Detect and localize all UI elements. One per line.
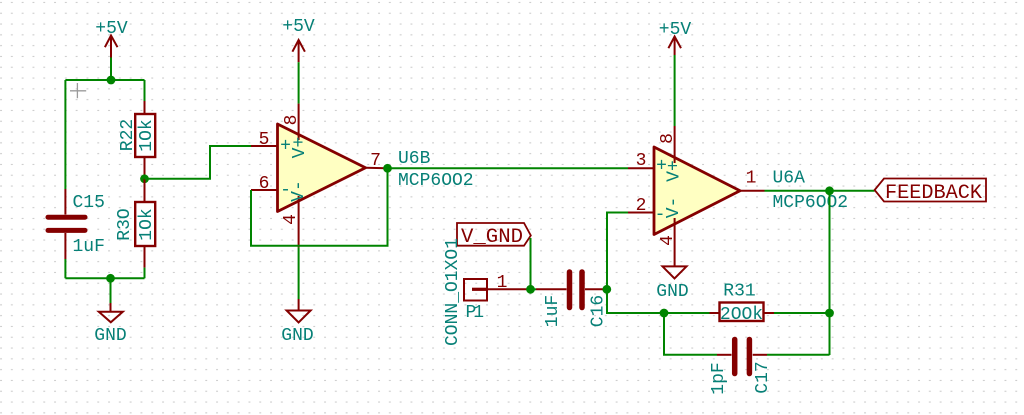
- junction P1 node: [526, 285, 535, 294]
- wire left branch down to C15: [64, 80, 66, 189]
- svg-text:1uF: 1uF: [543, 295, 563, 327]
- svg-text:1uF: 1uF: [73, 237, 105, 257]
- wire output branch vertical: [829, 191, 831, 355]
- pin 4: [298, 196, 300, 247]
- wire top rail: [65, 79, 144, 81]
- wire V_GND to node: [530, 238, 532, 289]
- resistor R30: [135, 179, 155, 268]
- wire U6A pin 2 branch: [607, 213, 664, 314]
- pin 5: [251, 145, 278, 147]
- svg-text:4: 4: [281, 214, 301, 225]
- svg-text:C16: C16: [589, 295, 609, 327]
- svg-text:1Ok: 1Ok: [137, 119, 157, 151]
- svg-text:5: 5: [259, 130, 270, 150]
- svg-text:U6B: U6B: [398, 149, 431, 169]
- ground GND right: [656, 266, 688, 302]
- svg-text:U6A: U6A: [773, 169, 806, 189]
- wire U6A output to FEEDBACK: [765, 190, 875, 192]
- wire +5V to U6B pin 8: [298, 62, 300, 103]
- svg-text:+5V: +5V: [282, 17, 315, 37]
- svg-text:V+: V+: [665, 160, 685, 182]
- wire divider tap to op-amp: [145, 146, 252, 179]
- svg-text:MCP6OO2: MCP6OO2: [398, 171, 474, 191]
- connector P1: [464, 273, 531, 301]
- wire C15 bottom: [64, 259, 66, 278]
- wire U6B pin4 to ground: [298, 247, 300, 299]
- global label V_GND: [457, 223, 531, 249]
- global label FEEDBACK: [875, 179, 986, 205]
- svg-text:6: 6: [259, 174, 270, 194]
- svg-text:R3O: R3O: [115, 208, 135, 240]
- wire +5V to U6A pin 8: [674, 55, 676, 126]
- pin 8: [674, 126, 676, 163]
- capacitor C15: [48, 189, 85, 259]
- resistor R22: [135, 101, 155, 179]
- svg-text:8: 8: [282, 115, 302, 126]
- op-amp U6B: [251, 104, 388, 248]
- svg-text:GND: GND: [94, 326, 126, 346]
- svg-text:C17: C17: [753, 361, 773, 393]
- pin 8: [298, 104, 300, 140]
- junction output branch: [825, 186, 834, 195]
- pin 3: [628, 167, 654, 169]
- power +5V PWR02: [282, 17, 315, 62]
- svg-text:P1: P1: [466, 303, 485, 323]
- svg-text:V-: V-: [664, 197, 684, 219]
- ground GND middle: [281, 299, 313, 346]
- svg-text:FEEDBACK: FEEDBACK: [885, 182, 982, 205]
- svg-text:3: 3: [636, 151, 647, 171]
- power +5V PWR03: [659, 20, 692, 55]
- junction top rail: [107, 76, 116, 85]
- ground GND left: [94, 278, 126, 346]
- pin 4: [674, 218, 676, 266]
- resistor R31: [710, 303, 775, 322]
- pin 6: [251, 189, 278, 191]
- svg-text:8: 8: [658, 133, 678, 144]
- svg-text:2: 2: [636, 196, 647, 216]
- wire R22 top stub: [144, 80, 146, 101]
- origin crosshair marker: [70, 83, 86, 98]
- svg-text:V-: V-: [289, 180, 309, 202]
- svg-text:7: 7: [370, 151, 381, 171]
- svg-text:1: 1: [497, 273, 508, 293]
- junction bottom rail: [106, 274, 115, 283]
- junction R31 right node: [825, 309, 834, 318]
- svg-text:CONN_O1XO1: CONN_O1XO1: [443, 238, 463, 346]
- junction C16 right node: [602, 285, 611, 294]
- svg-text:GND: GND: [656, 282, 688, 302]
- svg-text:1: 1: [746, 169, 757, 189]
- junction U6B output: [383, 164, 392, 173]
- wire C17 branch left: [664, 313, 717, 355]
- wire U6B output to U6A pin 3: [388, 167, 629, 169]
- svg-text:1pF: 1pF: [709, 362, 729, 394]
- wire C17 branch right: [767, 354, 830, 356]
- junction R31 left node: [660, 309, 669, 318]
- svg-text:4: 4: [658, 235, 678, 246]
- pin 7 output: [366, 167, 388, 170]
- svg-text:GND: GND: [281, 326, 313, 346]
- svg-text:R22: R22: [118, 119, 138, 151]
- pin 1 output: [740, 190, 765, 192]
- wire bottom rail: [65, 277, 144, 279]
- pin 1: [487, 288, 531, 290]
- wire R30 bottom: [144, 268, 146, 279]
- capacitor C17: [717, 340, 767, 374]
- power +5V PWR01: [95, 19, 128, 58]
- svg-text:MCP6OO2: MCP6OO2: [773, 193, 849, 213]
- capacitor C16: [531, 272, 607, 308]
- svg-text:R31: R31: [723, 282, 755, 302]
- pin 2: [628, 212, 654, 214]
- svg-text:V+: V+: [290, 137, 310, 159]
- svg-text:V_GND: V_GND: [461, 226, 523, 249]
- wire +5V stem to top rail: [110, 58, 112, 81]
- svg-text:1Ok: 1Ok: [137, 208, 157, 240]
- op-amp U6A: [628, 126, 765, 266]
- wire U6B feedback loop: [251, 168, 388, 246]
- wire R31 left stub: [664, 312, 710, 314]
- svg-text:C15: C15: [73, 193, 105, 213]
- wire R31 right stub: [774, 312, 830, 314]
- svg-text:2OOk: 2OOk: [720, 305, 763, 325]
- junction mid divider: [140, 174, 149, 183]
